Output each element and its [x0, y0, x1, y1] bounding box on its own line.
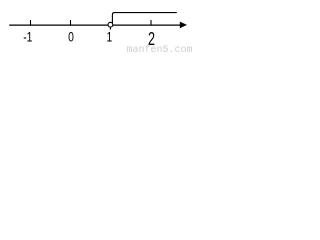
svg-text:-1: -1	[23, 29, 32, 45]
tick -1	[30, 20, 32, 26]
open circle at 1	[108, 22, 113, 27]
tick 2	[150, 20, 152, 26]
background	[0, 0, 195, 53]
svg-text:1: 1	[107, 29, 113, 45]
axis arrowhead	[180, 22, 187, 29]
svg-text:2: 2	[148, 30, 155, 50]
tick 0	[70, 20, 72, 26]
tick stub below open circle at 1	[109, 27, 111, 29]
svg-text:manfen5.com: manfen5.com	[127, 44, 193, 53]
svg-text:0: 0	[68, 29, 74, 45]
number line (main axis)	[9, 24, 180, 26]
ray x>1 : riser and raised horizontal line	[112, 13, 176, 25]
